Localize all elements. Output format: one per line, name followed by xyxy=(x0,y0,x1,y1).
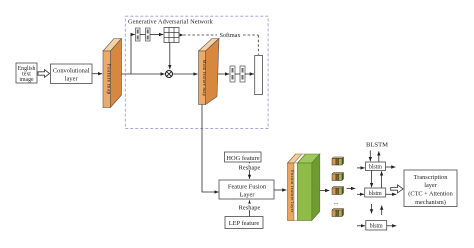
slab Feature map xyxy=(103,39,122,108)
box blstm1 xyxy=(366,162,386,171)
wire G2 to output vector xyxy=(245,73,254,75)
wire blstm1 left xyxy=(357,167,365,169)
svg-text:image: image xyxy=(19,77,34,83)
svg-text:Reshape: Reshape xyxy=(239,205,261,212)
wire conv to feature map xyxy=(92,73,102,75)
block arrow input xyxy=(38,70,50,78)
wire mask slab to fc blocks xyxy=(218,73,229,75)
svg-text:LEP feature: LEP feature xyxy=(229,220,260,227)
multiplier circle xyxy=(166,71,173,78)
svg-text:blstm: blstm xyxy=(369,191,382,197)
svg-text:blstm: blstm xyxy=(369,165,382,171)
fc block G1 xyxy=(230,66,235,82)
conv block D1 xyxy=(136,28,141,41)
svg-text:(CTC + Attention: (CTC + Attention xyxy=(408,191,453,198)
wire block to cube3 xyxy=(320,190,330,192)
arrows blstm2 to blstm3 floating xyxy=(372,204,382,215)
arrows above blstm1 xyxy=(370,151,379,163)
wire blstm2 right xyxy=(386,193,397,195)
arrowhead after grid xyxy=(180,33,184,36)
box Transcription layer xyxy=(404,170,457,207)
svg-text:...: ... xyxy=(334,200,339,206)
svg-text:Mask feature map: Mask feature map xyxy=(202,60,207,97)
wire feature map to multiplier xyxy=(122,73,165,75)
wire LEP to fusion xyxy=(249,200,251,216)
wire fusion box to fusion block xyxy=(274,189,286,191)
svg-text:layer: layer xyxy=(65,75,79,82)
wire HOG to fusion xyxy=(249,162,251,179)
wire G1 to G2 xyxy=(235,73,240,75)
svg-text:Layer: Layer xyxy=(240,191,256,198)
GAN dashed box xyxy=(125,16,268,128)
box blstm2 xyxy=(365,188,386,197)
svg-text:Reshape: Reshape xyxy=(239,164,261,171)
wire into blstm2 xyxy=(357,193,364,195)
svg-text:Fusion feature layer: Fusion feature layer xyxy=(290,170,295,213)
grid attention map xyxy=(164,28,179,43)
svg-text:layer: layer xyxy=(424,182,437,189)
wire blstm3 right xyxy=(387,225,397,227)
wire blstm1 right xyxy=(386,166,396,168)
wire D2 to grid xyxy=(150,34,163,36)
box English text image xyxy=(16,63,37,83)
svg-text:Softmax: Softmax xyxy=(220,32,242,39)
box HOG feature xyxy=(225,152,262,162)
wire grid to multiplier xyxy=(169,43,171,70)
svg-text:Feature Fusion: Feature Fusion xyxy=(228,183,267,190)
feature cube 4 xyxy=(332,209,344,217)
svg-text:mechanism): mechanism) xyxy=(415,199,446,206)
conv block D2 xyxy=(146,28,151,41)
svg-text:HOG feature: HOG feature xyxy=(226,155,259,162)
box LEP feature xyxy=(225,217,263,229)
box blstm3 xyxy=(366,221,387,231)
arrows blstm1 to blstm2 xyxy=(372,171,382,189)
wire branch up to conv blocks xyxy=(131,35,135,75)
svg-text:Feature map: Feature map xyxy=(106,64,112,95)
box Feature Fusion Layer xyxy=(219,180,274,199)
dashed softmax wire xyxy=(183,35,258,55)
label Reshape bottom xyxy=(238,204,262,212)
fusion feature block xyxy=(288,154,320,221)
wire blstm3 left xyxy=(357,225,365,227)
slab Mask feature map xyxy=(199,39,220,105)
wire cube3 out xyxy=(347,187,356,189)
box Convolutional layer xyxy=(51,64,93,84)
svg-text:Convolutional: Convolutional xyxy=(53,68,90,75)
wire D1 to D2 xyxy=(140,34,146,36)
svg-text:blstm: blstm xyxy=(370,224,383,230)
feature cube 1 xyxy=(332,157,344,165)
label Reshape top xyxy=(238,163,262,171)
fc block G2 xyxy=(240,66,245,82)
wire multiplier to mask slab xyxy=(173,73,198,75)
feature cube 3 xyxy=(332,187,344,195)
feature cube 2 xyxy=(332,173,344,181)
output vector rect xyxy=(255,56,263,95)
svg-text:BLSTM: BLSTM xyxy=(366,142,388,149)
svg-text:Generative Adversarial Network: Generative Adversarial Network xyxy=(128,19,214,26)
block arrow to transcription xyxy=(391,185,403,193)
wire mask slab down to fusion layer xyxy=(202,105,219,193)
svg-text:Transcription: Transcription xyxy=(414,174,449,181)
